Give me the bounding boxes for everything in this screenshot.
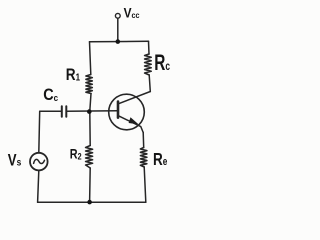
wire left branch upper (rail to R1) (90, 42, 91, 75)
transistor Q1 circle (109, 94, 145, 130)
capacitor Cc plate right (65, 106, 67, 117)
source Vs circle (30, 153, 48, 171)
wire base node to R2 (89, 111, 91, 145)
source Vs sine wave (34, 159, 45, 163)
wire bottom rail (38, 201, 146, 203)
wire collector diagonal (118, 92, 150, 104)
wire Re to bottom rail (144, 167, 146, 202)
svg-text:Rc: Rc (154, 51, 170, 75)
svg-text:Re: Re (153, 150, 168, 169)
node Vcc rail junction dot (116, 39, 121, 44)
wire right branch (rail to Rc) (148, 41, 151, 54)
wire Vcc stem (117, 18, 119, 41)
resistor R2 (86, 146, 93, 169)
transistor Q1 emitter arrow (129, 117, 139, 124)
svg-text:R1: R1 (66, 66, 80, 85)
wire Vs to bottom rail (38, 171, 39, 203)
capacitor Cc plate left (61, 106, 63, 117)
node bottom rail junction dot (87, 200, 92, 205)
wire base lead (66, 110, 118, 112)
Vcc terminal circle (115, 13, 120, 18)
wire Vs branch top (39, 111, 62, 153)
svg-text:Cc: Cc (43, 86, 58, 104)
wire R1 to base node (90, 94, 91, 112)
resistor Rc (145, 54, 152, 75)
wire Rc to collector bend (149, 75, 150, 92)
node base junction dot (87, 109, 92, 114)
svg-text:Vcc: Vcc (124, 5, 141, 21)
resistor R1 (86, 75, 92, 94)
wire R2 to bottom rail (89, 168, 92, 202)
transistor Q1 base bar (117, 102, 120, 118)
svg-text:R2: R2 (70, 146, 82, 161)
resistor Re (140, 148, 147, 168)
svg-text:Vs: Vs (8, 151, 21, 170)
wire top rail (90, 40, 149, 43)
wire emitter to Re (142, 133, 145, 148)
transistor Q1 emitter line (118, 116, 143, 133)
